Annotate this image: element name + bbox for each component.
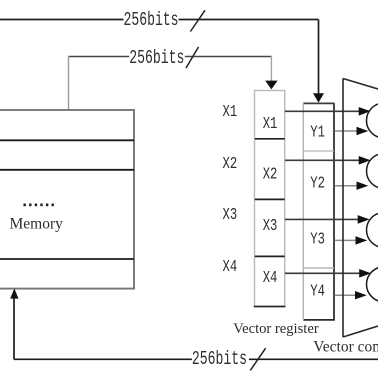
memory box bbox=[0, 110, 134, 289]
X register divider 1 bbox=[255, 138, 285, 140]
svg-text:X2: X2 bbox=[223, 155, 238, 173]
wire B vertical drop to X register bbox=[270, 57, 272, 82]
memory ellipsis dots bbox=[24, 204, 54, 207]
bus width slash B bbox=[186, 47, 199, 68]
svg-text:X1: X1 bbox=[263, 115, 278, 133]
wire X2 to ALU2 bbox=[285, 159, 360, 161]
Y register divider 3 bbox=[303, 267, 334, 269]
ALU circle 4 bbox=[367, 267, 378, 302]
memory row line 1 bbox=[0, 139, 134, 141]
vector computation unit outline bbox=[343, 79, 378, 338]
arrowhead into X register top bbox=[265, 81, 277, 90]
memory row line 3 bbox=[0, 258, 134, 260]
Y register column box bbox=[303, 103, 335, 320]
arrowhead up into memory bottom bbox=[10, 288, 18, 298]
ALU circle 2 bbox=[367, 154, 378, 189]
bus width slash bottom bbox=[250, 348, 265, 370]
wire X4 to ALU4 bbox=[285, 272, 360, 274]
X register divider 2 bbox=[255, 198, 285, 200]
memory row line 2 bbox=[0, 169, 134, 171]
svg-text:256bits: 256bits bbox=[124, 9, 179, 31]
svg-text:X3: X3 bbox=[263, 217, 278, 235]
wire Y2 to ALU2 bbox=[335, 185, 358, 187]
svg-text:Y4: Y4 bbox=[310, 283, 325, 301]
svg-text:Y1: Y1 bbox=[310, 124, 325, 142]
svg-text:Y3: Y3 bbox=[310, 231, 325, 249]
X register divider 3 bbox=[255, 255, 285, 257]
bus width slash A bbox=[190, 10, 205, 31]
svg-text:256bits: 256bits bbox=[129, 47, 184, 69]
svg-text:X2: X2 bbox=[263, 166, 278, 184]
svg-text:X3: X3 bbox=[223, 206, 238, 224]
wire Y3 to ALU3 bbox=[335, 239, 357, 241]
wire X1 to ALU1 bbox=[285, 110, 360, 112]
svg-text:Vector computation unit: Vector computation unit bbox=[313, 338, 378, 355]
X register column box bbox=[255, 91, 285, 307]
svg-text:Memory: Memory bbox=[10, 216, 64, 233]
svg-text:X4: X4 bbox=[263, 269, 278, 287]
X register bottom edge bbox=[254, 306, 286, 308]
wire bus B horizontal (memory to X register) bbox=[69, 56, 272, 58]
svg-text:Vector register: Vector register bbox=[233, 321, 319, 337]
wire B vertical drop to memory top bbox=[68, 57, 70, 111]
ALU circle 3 bbox=[367, 213, 378, 248]
wire X3 to ALU3 bbox=[285, 218, 359, 220]
svg-text:X4: X4 bbox=[223, 258, 238, 276]
ALU circle 1 bbox=[367, 103, 378, 138]
svg-text:Y2: Y2 bbox=[310, 175, 325, 193]
svg-text:256bits: 256bits bbox=[192, 348, 247, 370]
arrowhead into Y register top bbox=[313, 93, 324, 102]
wire Y4 to ALU4 bbox=[335, 294, 356, 296]
svg-text:X1: X1 bbox=[223, 104, 238, 122]
Y register divider 1 bbox=[303, 150, 334, 152]
wire bus A horizontal (top, to Y register) bbox=[0, 20, 319, 95]
wire Y1 to ALU1 bbox=[335, 130, 358, 132]
wire bottom bus (256bits into memory) bbox=[14, 298, 378, 360]
